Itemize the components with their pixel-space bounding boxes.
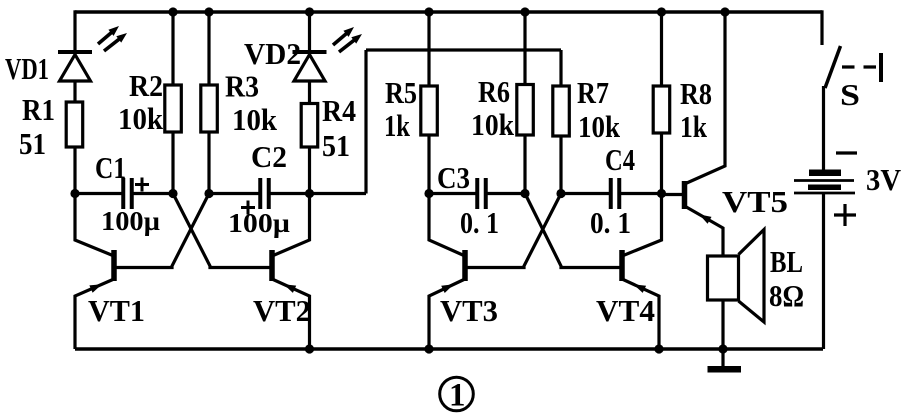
junction node C2n (C4/R7/VT3 base) <box>556 189 565 198</box>
svg-text:100µ: 100µ <box>101 206 160 236</box>
wire VD2 column top <box>308 12 311 52</box>
resistor R4 <box>301 104 318 148</box>
wire node A2 to C3 <box>429 192 477 195</box>
svg-text:R3: R3 <box>225 69 259 104</box>
junction node B2 (C3/R6/VT4 base) <box>520 189 529 198</box>
figure number circled 1 <box>440 377 474 411</box>
svg-text:VT2: VT2 <box>253 293 311 328</box>
svg-text:C4: C4 <box>605 142 635 177</box>
wire R3 to node C1n <box>207 131 210 194</box>
junction R3 top rail <box>204 7 213 16</box>
wire cross-coupling node C2n to VT3 base <box>465 194 561 268</box>
wire R8 to node D2 <box>660 132 663 194</box>
wire C1 to node B1 <box>132 192 174 195</box>
junction VT2 emitter at ground rail <box>305 344 314 353</box>
VT3 emitter wire <box>429 279 465 349</box>
speaker BL horn <box>739 230 765 323</box>
junction VD2 top rail <box>305 7 314 16</box>
junction VT4 emitter at ground rail <box>654 344 663 353</box>
svg-text:VT5: VT5 <box>722 184 788 219</box>
transistor VT1 base bar <box>111 250 117 281</box>
wire battery to bottom rail <box>822 194 825 349</box>
wire R2 column top <box>171 12 174 86</box>
capacitor C1 <box>121 178 125 209</box>
VT3 collector wire <box>429 194 465 257</box>
LED VD1 <box>58 50 92 54</box>
wire VD2 to R4 <box>308 80 311 104</box>
transistor VT2 base bar <box>269 250 275 281</box>
svg-text:1: 1 <box>449 378 466 414</box>
svg-text:10k: 10k <box>118 101 164 136</box>
junction VT3 emitter at ground rail <box>424 344 433 353</box>
wire node C1n to C2 <box>209 192 261 195</box>
svg-text:R6: R6 <box>478 74 510 109</box>
VT5 collector wire <box>685 12 726 184</box>
transistor VT3 base bar <box>462 250 468 281</box>
VT2 collector wire <box>272 194 310 257</box>
switch S actuator dashed link <box>842 65 877 68</box>
junction node D2 (VT4 collector / VT5 base) <box>657 189 666 198</box>
wire node A1 to C1 <box>75 192 124 195</box>
svg-text:R2: R2 <box>129 68 163 103</box>
switch S actuator end bar <box>879 53 883 82</box>
wire bottom ground rail <box>75 347 823 351</box>
VT4 emitter arrow (PNP) <box>634 284 647 293</box>
svg-text:0. 1: 0. 1 <box>460 205 499 240</box>
resistor R6 <box>517 85 534 136</box>
svg-text:R1: R1 <box>22 92 55 127</box>
wire riser horizontal segment to R7 <box>366 48 561 51</box>
wire R8 column top <box>660 12 663 87</box>
C2 polarity mark + <box>241 206 255 209</box>
svg-text:C3: C3 <box>437 160 470 195</box>
svg-text:C2: C2 <box>251 139 287 174</box>
svg-text:VD2: VD2 <box>244 36 301 71</box>
wire cross-coupling node B2 to VT4 base <box>525 194 622 268</box>
battery polarity minus <box>836 151 857 154</box>
capacitor C4 <box>609 178 613 209</box>
wire speaker to ground rail <box>721 299 724 349</box>
ground symbol <box>721 349 724 367</box>
VT2 emitter wire <box>272 279 310 349</box>
wire C2 to node D1 <box>269 192 310 195</box>
node A1 junction (VT1 collector) <box>70 189 79 198</box>
battery polarity plus <box>834 213 856 216</box>
wire node D1 to riser <box>310 192 367 195</box>
wire R6 to node B2 <box>523 134 526 194</box>
wire C3 to node B2 <box>486 192 525 195</box>
svg-text:51: 51 <box>19 126 46 161</box>
svg-text:BL: BL <box>770 244 803 279</box>
svg-text:R8: R8 <box>680 76 712 111</box>
svg-text:S: S <box>840 77 860 112</box>
svg-text:R7: R7 <box>577 75 609 110</box>
LED VD2 <box>293 50 327 54</box>
resistor R5 <box>421 86 438 135</box>
svg-text:8Ω: 8Ω <box>769 278 804 313</box>
VT5 emitter arrow (PNP) <box>699 214 711 223</box>
svg-text:100µ: 100µ <box>228 208 290 238</box>
wire switch to battery top plate <box>822 86 825 171</box>
svg-text:1k: 1k <box>680 109 708 144</box>
wire riser vertical segment <box>364 50 367 194</box>
C1 polarity mark + <box>135 183 149 186</box>
speaker BL body <box>708 256 739 300</box>
VT1 emitter wire <box>75 279 114 349</box>
resistor R2 <box>165 85 182 132</box>
VT4 emitter wire <box>622 279 659 349</box>
svg-text:VT3: VT3 <box>440 293 498 328</box>
VT4 collector wire <box>622 194 662 257</box>
wire C4 to node D2 <box>620 192 662 195</box>
battery GB plate 1 short thick <box>809 170 841 177</box>
svg-text:VT1: VT1 <box>88 293 145 328</box>
resistor R1 <box>66 102 83 147</box>
wire R6 column top <box>523 12 526 85</box>
capacitor C3 <box>475 178 479 209</box>
wire node D2 to VT5 base <box>662 193 683 196</box>
svg-text:10k: 10k <box>471 107 515 142</box>
transistor VT4 base bar <box>619 250 625 281</box>
battery GB plate 4 long thin <box>794 192 855 195</box>
VD1 light emission arrows <box>98 31 114 44</box>
wire node C2n to C4 <box>561 192 611 195</box>
svg-text:C1: C1 <box>95 150 126 185</box>
wire R4 to node D1 <box>308 146 311 194</box>
resistor R8 <box>653 86 670 133</box>
svg-text:VT4: VT4 <box>596 293 655 328</box>
svg-text:R4: R4 <box>322 93 356 128</box>
VT1 emitter arrow (PNP) <box>89 284 102 292</box>
junction R8 top rail <box>657 7 666 16</box>
resistor R3 <box>201 85 218 132</box>
wire R5 column top <box>427 12 430 87</box>
wire drop to R7 top <box>559 50 562 86</box>
battery GB plate 2 long thin <box>794 179 854 182</box>
wire VD1 column top <box>73 10 76 52</box>
svg-text:1k: 1k <box>384 108 411 143</box>
VD2 light emission arrows <box>333 32 349 45</box>
wire R5 to node A2 <box>427 134 430 194</box>
transistor VT5 base bar <box>682 181 688 209</box>
junction node B1 (C1/R2/VT2 base) <box>168 189 177 198</box>
battery GB plate 3 short thick <box>808 185 841 191</box>
VT2 emitter arrow (PNP) <box>284 284 297 293</box>
junction node A2 (VT3 collector) <box>424 189 433 198</box>
wire R1 to node A1 <box>73 146 76 194</box>
switch S blade <box>825 46 841 88</box>
junction speaker at ground rail <box>718 344 727 353</box>
svg-text:3V: 3V <box>866 162 902 197</box>
wire top rail corner to switch contact <box>820 10 823 45</box>
svg-text:51: 51 <box>322 128 350 163</box>
wire R7 to node C2n <box>559 135 562 194</box>
wire cross-coupling node C1n to VT1 base <box>114 194 209 268</box>
junction R5 top rail <box>424 7 433 16</box>
svg-text:10k: 10k <box>578 109 621 144</box>
wire R3 column top <box>207 12 210 86</box>
wire VD1 to R1 <box>73 80 76 103</box>
VT3 emitter arrow (PNP) <box>441 284 454 293</box>
svg-text:VD1: VD1 <box>5 51 49 86</box>
svg-text:0. 1: 0. 1 <box>590 205 631 240</box>
wire R2 to node B1 <box>171 131 174 194</box>
svg-text:R5: R5 <box>385 75 417 110</box>
junction node D1 (VT2 collector) <box>305 189 314 198</box>
svg-text:10k: 10k <box>232 102 278 137</box>
junction VT5 collector top rail <box>720 7 729 16</box>
junction R2 top rail <box>168 7 177 16</box>
junction R6 top rail <box>520 7 529 16</box>
capacitor C2 <box>258 178 262 209</box>
junction node C1n (C2/R3/VT1 base) <box>204 189 213 198</box>
wire cross-coupling node B1 to VT2 base <box>173 194 272 268</box>
wire top supply rail <box>75 10 822 14</box>
resistor R7 <box>553 86 570 136</box>
VT5 emitter wire <box>685 206 724 257</box>
VT1 collector wire <box>75 194 114 257</box>
